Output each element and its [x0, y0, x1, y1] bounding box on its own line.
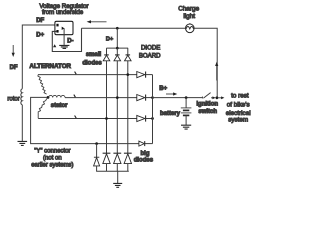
ground (rotor) [18, 141, 28, 145]
ground bus under diodes [96, 170, 129, 172]
junction dot phase3/riser1 [105, 117, 108, 120]
regulator D+ terminal pad [56, 30, 58, 33]
ignition switch [201, 97, 204, 99]
svg-text:Charge: Charge [178, 5, 199, 12]
phase line 1 [38, 74, 137, 76]
svg-text:system: system [228, 117, 248, 124]
svg-text:battery: battery [160, 111, 181, 117]
svg-text:D+: D+ [36, 33, 44, 39]
phase riser 2 [116, 61, 118, 153]
stator Y-center node [47, 96, 50, 99]
ground (battery) [181, 125, 191, 129]
small diode 3 [126, 54, 131, 56]
small diode 2 [115, 54, 120, 56]
svg-text:earlier systems): earlier systems) [31, 162, 73, 168]
down diode 3 (to ground) [124, 152, 132, 154]
svg-text:diodes: diodes [82, 60, 102, 66]
phase line 3 [38, 118, 137, 120]
arrow on D+ wire (up) [53, 44, 56, 47]
wire: lamp to right corner, down to switch junction [194, 28, 217, 98]
big diode row 3 (to B+) [137, 115, 145, 121]
junction dot: D+ bus to exciter diodes [116, 27, 119, 30]
down diode 2 (to ground) [113, 152, 121, 154]
Y-tap down diode (to ground) [94, 144, 99, 158]
wire DF: regulator to rotor top [22, 25, 56, 89]
ground (diode board) [117, 171, 119, 183]
down diode 1 (to ground) [103, 152, 111, 154]
regulator DF terminal pad [56, 24, 58, 27]
junction dot phase2/riser2 [116, 96, 119, 99]
junction dot bus row3 [151, 117, 154, 120]
svg-text:big: big [141, 151, 150, 157]
junction dot phase1/riser3 [126, 73, 129, 76]
junction dot bus row2 [151, 96, 154, 99]
junction dot switch output [216, 96, 219, 99]
svg-text:to rest: to rest [231, 93, 249, 100]
voltage regulator box [55, 21, 73, 34]
Y-center tap wire [31, 97, 140, 143]
svg-text:of bike's: of bike's [227, 101, 250, 108]
small diode 1 [104, 54, 109, 56]
svg-text:small: small [86, 52, 102, 58]
junction dot on mini-bus [116, 47, 119, 50]
stator winding phase 3 (lower diagonal) [38, 99, 47, 119]
svg-text:from underside: from underside [42, 9, 84, 16]
svg-text:switch: switch [198, 109, 217, 115]
junction dot on Y-tap line [95, 142, 98, 145]
ground (regulator D-) [59, 45, 69, 48]
stubs to small diode cathodes [107, 48, 128, 55]
stator winding phase 1 (upper diagonal) [38, 75, 47, 94]
svg-text:D+: D+ [106, 37, 114, 43]
phase riser 1 [106, 61, 108, 153]
B+ collector bus [152, 75, 154, 144]
current arrow right under B+ [166, 93, 175, 95]
phase riser 3 [127, 61, 129, 153]
D+ bus (top horizontal) [82, 27, 186, 29]
rotor coil [21, 89, 22, 105]
current arrow on D+ bus (points left) [90, 21, 107, 23]
svg-text:D-: D- [67, 38, 73, 44]
svg-text:ignition: ignition [196, 101, 218, 107]
phase marker tick 2 [74, 95, 76, 98]
wire D+: regulator terminal wrapping under ground to D+ bus [52, 28, 81, 51]
phase line 2 [65, 97, 137, 99]
svg-text:DF: DF [10, 65, 18, 71]
svg-text:DIODE: DIODE [141, 45, 160, 52]
charge light lamp [186, 24, 195, 33]
junction dot battery tap [185, 96, 188, 99]
current arrow up on right drop wire [216, 65, 218, 81]
svg-text:B+: B+ [159, 86, 167, 92]
battery [185, 98, 187, 108]
arrow to rest of system [218, 97, 222, 99]
regulator internal contact [62, 27, 65, 30]
current arrow down on DF wire [12, 45, 14, 54]
big diode row 2 (to B+) [137, 95, 145, 101]
svg-text:"Y" connector: "Y" connector [34, 149, 70, 155]
svg-text:stator: stator [51, 103, 68, 109]
wire: D+ bus drop to exciter diode mini-bus [106, 28, 128, 48]
svg-text:rotor: rotor [7, 96, 19, 102]
svg-text:DF: DF [36, 18, 44, 24]
phase marker tick 3 [75, 116, 77, 119]
svg-text:BOARD: BOARD [139, 52, 161, 59]
rotor lower wire to ground [21, 105, 23, 141]
Y-tap diode (to B+) [139, 141, 144, 146]
phase marker tick 1 [75, 72, 77, 75]
regulator D- wire to ground [63, 28, 65, 45]
svg-text:light: light [183, 13, 195, 20]
svg-text:(not on: (not on [43, 156, 62, 162]
svg-text:ALTERNATOR: ALTERNATOR [29, 63, 71, 70]
big diode row 1 (to B+) [137, 72, 145, 78]
stator winding phase 2 (horizontal) [49, 95, 65, 97]
B+ wire: bus to ignition switch [153, 97, 203, 99]
svg-text:diodes: diodes [134, 157, 154, 163]
